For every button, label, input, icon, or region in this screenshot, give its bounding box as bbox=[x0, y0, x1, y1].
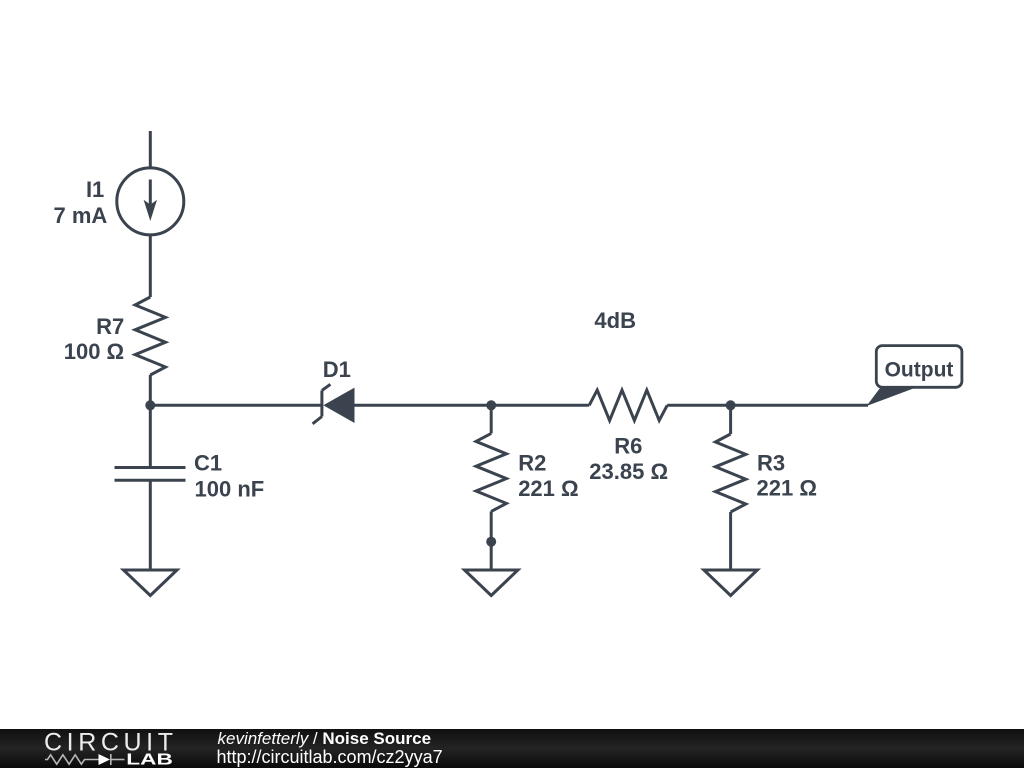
svg-text:R3: R3 bbox=[757, 451, 785, 476]
wire node D to R3 bbox=[729, 405, 732, 434]
svg-text:100 Ω: 100 Ω bbox=[64, 339, 124, 364]
svg-text:R6: R6 bbox=[614, 434, 642, 459]
svg-text:C1: C1 bbox=[194, 450, 222, 475]
node B junction dot bbox=[486, 400, 496, 410]
svg-text:D1: D1 bbox=[323, 357, 351, 382]
svg-text:R2: R2 bbox=[518, 450, 546, 475]
svg-text:http://circuitlab.com/cz2yya7: http://circuitlab.com/cz2yya7 bbox=[217, 747, 443, 767]
output flag box bbox=[876, 346, 962, 388]
wire I1 to R7 bbox=[149, 235, 152, 297]
footer bar bbox=[0, 729, 1024, 768]
svg-text:23.85 Ω: 23.85 Ω bbox=[589, 459, 668, 484]
resistor R3 bbox=[715, 434, 745, 512]
wire R3 to ground bbox=[729, 512, 732, 570]
output flag pointer bbox=[867, 387, 914, 406]
node D junction dot bbox=[726, 400, 736, 410]
wire node B to R2 bbox=[490, 405, 493, 433]
current source I1 bbox=[117, 168, 184, 235]
wire node A to C1 bbox=[149, 405, 152, 467]
wire D1 to node B bbox=[355, 404, 492, 407]
wire node C to ground bbox=[490, 542, 493, 570]
resistor R2 bbox=[476, 433, 506, 511]
capacitor C1 bbox=[115, 468, 186, 571]
ground under C1 bbox=[124, 570, 178, 596]
svg-text:221 Ω: 221 Ω bbox=[518, 476, 578, 501]
svg-text:LAB: LAB bbox=[126, 752, 173, 768]
wire node B to R6 bbox=[491, 404, 589, 407]
node C junction dot bbox=[486, 537, 496, 547]
ground under R2 bbox=[465, 570, 518, 596]
wire R7 to node A bbox=[149, 375, 152, 405]
wire node D to output flag bbox=[731, 404, 868, 407]
svg-text:221 Ω: 221 Ω bbox=[757, 476, 817, 501]
svg-text:I1: I1 bbox=[86, 177, 104, 202]
wire R2 to node C bbox=[490, 511, 493, 541]
svg-text:100 nF: 100 nF bbox=[195, 476, 265, 501]
zener diode D1 bbox=[313, 384, 355, 424]
svg-text:Output: Output bbox=[885, 358, 954, 381]
svg-text:kevinfetterly / Noise Source: kevinfetterly / Noise Source bbox=[218, 729, 432, 748]
CircuitLab logo resistor-diode glyph bbox=[45, 754, 125, 765]
ground under R3 bbox=[704, 570, 757, 596]
wire node A to D1 bbox=[150, 404, 322, 407]
node A junction dot bbox=[145, 400, 155, 410]
resistor R6 bbox=[589, 390, 667, 420]
svg-text:4dB: 4dB bbox=[594, 308, 636, 333]
svg-text:R7: R7 bbox=[96, 314, 124, 339]
wire top feed into I1 bbox=[149, 131, 152, 168]
resistor R7 bbox=[135, 297, 165, 375]
svg-text:7 mA: 7 mA bbox=[54, 203, 108, 228]
wire R6 to node D bbox=[667, 404, 730, 407]
